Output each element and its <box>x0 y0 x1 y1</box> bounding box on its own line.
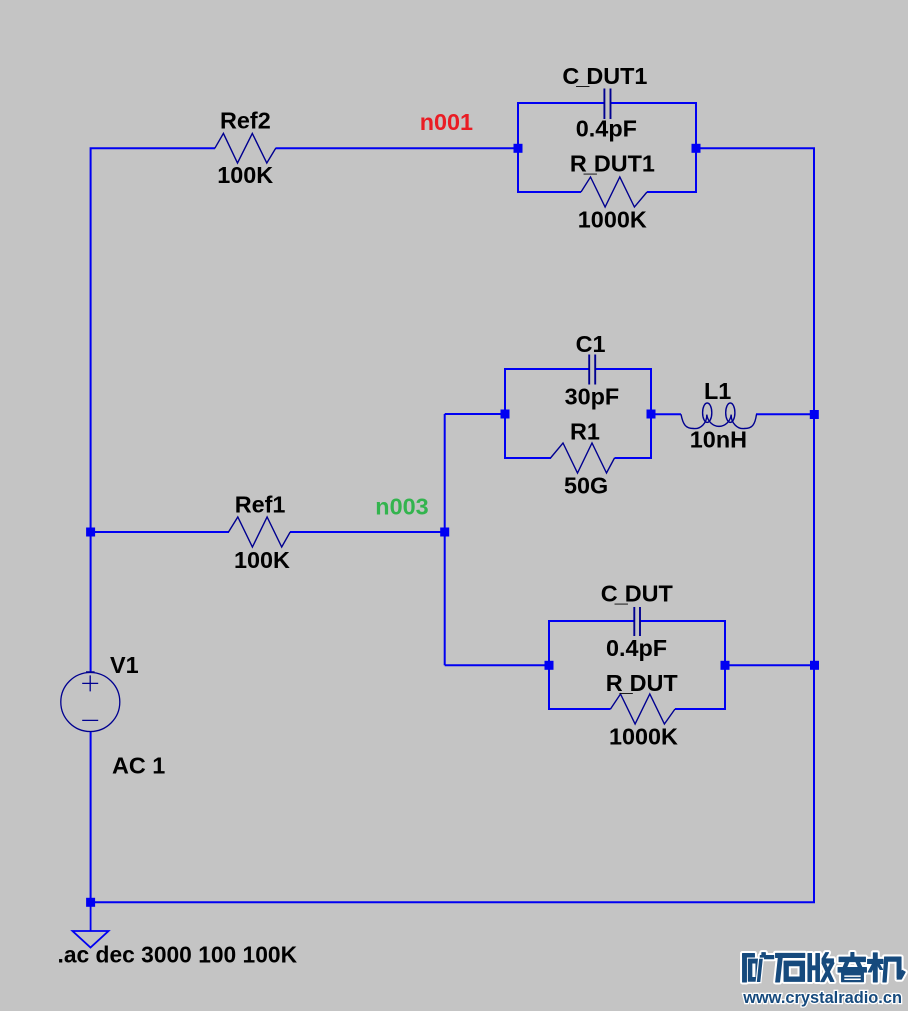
node n003 junction <box>440 528 449 537</box>
wire: L1 left lead <box>651 413 681 415</box>
wire: C_DUT loop right half <box>640 621 725 709</box>
wire: C_DUT loop left half <box>549 621 634 709</box>
wire: V1 bottom lead, bottom rail, right rail <box>91 148 814 902</box>
voltage source V1 circle <box>61 672 120 732</box>
node: C_DUT1 right <box>692 144 701 153</box>
node squares <box>86 144 819 907</box>
node: V1/Ref1 junction <box>86 528 95 537</box>
capacitor C_DUT1 plates <box>604 89 610 120</box>
wire: C_DUT1 loop right half <box>611 103 696 192</box>
resistor R_DUT zigzag <box>611 694 676 724</box>
svg-text:C_DUT1: C_DUT1 <box>562 63 647 89</box>
wire: Ref1 left lead <box>91 531 229 533</box>
svg-text:L1: L1 <box>704 378 731 404</box>
resistor Ref2 zigzag <box>215 133 276 163</box>
char kuang: descending stroke with seam <box>757 959 763 982</box>
wire: branch to C1 block <box>445 413 505 415</box>
svg-text:0.4pF: 0.4pF <box>576 116 637 142</box>
node: C_DUT right <box>721 661 730 670</box>
resistor R1 zigzag <box>551 443 615 473</box>
svg-text:10nH: 10nH <box>690 427 747 453</box>
svg-text:30pF: 30pF <box>565 384 620 410</box>
wire: branch to C_DUT block <box>445 664 549 666</box>
capacitor C_DUT plates <box>634 607 640 636</box>
svg-text:100K: 100K <box>234 547 290 573</box>
svg-text:1000K: 1000K <box>578 207 647 233</box>
component symbols (dark navy) <box>215 133 675 724</box>
node: C_DUT left <box>545 661 554 670</box>
wire: L1 right lead to right rail <box>756 413 814 415</box>
V1 top pin tick <box>86 671 95 673</box>
node: ground junction <box>86 898 95 907</box>
wire: C1 loop left half <box>505 369 589 458</box>
svg-text:R_DUT1: R_DUT1 <box>570 151 655 177</box>
svg-text:Ref1: Ref1 <box>235 492 286 518</box>
node: C1 left <box>501 410 510 419</box>
svg-text:100K: 100K <box>217 162 273 188</box>
svg-text:50G: 50G <box>564 473 608 499</box>
ground symbol <box>73 902 109 948</box>
svg-text:n001: n001 <box>420 109 473 135</box>
resistor Ref1 zigzag <box>229 517 291 547</box>
wire: n003 vertical bus <box>444 414 446 665</box>
svg-text:R1: R1 <box>570 419 600 445</box>
svg-text:n003: n003 <box>375 494 428 520</box>
node: right rail / L1 <box>810 410 819 419</box>
svg-text:C1: C1 <box>576 331 606 357</box>
node: right rail / C_DUT <box>810 661 819 670</box>
capacitor C1 plates <box>589 355 595 385</box>
svg-text:V1: V1 <box>110 652 139 678</box>
resistor R_DUT1 zigzag <box>581 177 647 207</box>
svg-text:0.4pF: 0.4pF <box>606 635 667 661</box>
svg-text:1000K: 1000K <box>609 724 678 750</box>
V1 plus sign <box>82 675 98 691</box>
V1 minus sign <box>82 719 98 721</box>
wire: Ref1 right lead to n003 junction <box>290 531 445 533</box>
wire: Ref2 right lead to n001 node <box>276 147 519 149</box>
svg-text:Ref2: Ref2 <box>220 108 271 134</box>
inductor L1 <box>681 403 757 429</box>
node: C_DUT1 left <box>514 144 523 153</box>
svg-text:www.crystalradio.cn: www.crystalradio.cn <box>742 989 902 1007</box>
svg-text:C_DUT: C_DUT <box>601 581 674 607</box>
svg-text:R_DUT: R_DUT <box>606 670 679 696</box>
wire: C1 loop right half <box>595 369 651 458</box>
wire: top-left loop and V1 top lead <box>91 148 215 673</box>
node: C1 right <box>647 410 656 419</box>
C_DUT1 / R_DUT1 parallel loop wires <box>505 103 725 709</box>
wire: C_DUT right node to right rail <box>725 664 814 666</box>
svg-text:.ac dec 3000 100 100K: .ac dec 3000 100 100K <box>58 942 298 968</box>
svg-text:AC 1: AC 1 <box>112 753 165 779</box>
char yin: white slits in block <box>844 975 860 980</box>
wire: C_DUT1 loop left half <box>518 103 604 192</box>
